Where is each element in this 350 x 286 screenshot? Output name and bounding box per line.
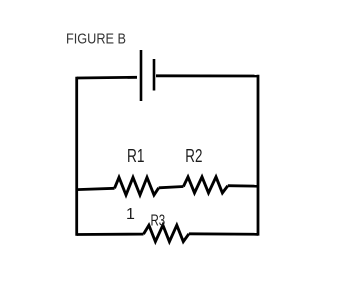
wire middle-center (R1 to R2) bbox=[159, 187, 184, 188]
resistor R2 bbox=[183, 177, 227, 193]
svg-text:R1: R1 bbox=[127, 146, 145, 166]
battery B1 short plate bbox=[153, 59, 156, 91]
wire middle-left (left rail to R1) bbox=[77, 188, 115, 189]
svg-text:FIGURE B: FIGURE B bbox=[66, 31, 126, 48]
svg-text:1: 1 bbox=[126, 206, 135, 223]
wire bottom-right (R3 to right rail) bbox=[189, 232, 258, 235]
wire bottom-left (left rail to R3) bbox=[77, 233, 144, 236]
wire left vertical bbox=[75, 77, 78, 236]
svg-text:R2: R2 bbox=[185, 146, 202, 166]
wire top-right (from battery - plate to right corner) bbox=[156, 74, 258, 77]
resistor R1 bbox=[115, 177, 159, 195]
battery B1 long plate bbox=[140, 50, 143, 101]
resistor R3 bbox=[144, 225, 189, 241]
wire middle-right (R2 to right rail) bbox=[228, 184, 258, 187]
wire right vertical bbox=[257, 75, 260, 236]
wire top-left (from left corner to battery + plate) bbox=[77, 76, 137, 79]
svg-text:R3: R3 bbox=[151, 213, 166, 230]
